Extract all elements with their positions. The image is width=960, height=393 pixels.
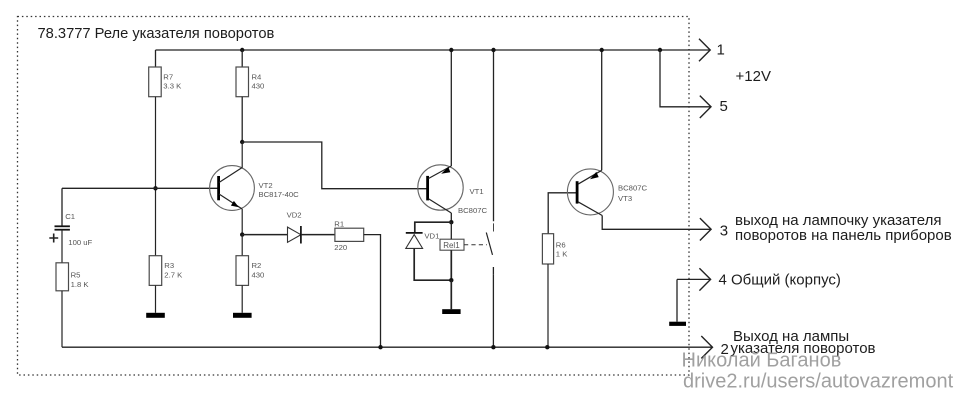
pin 5 arrow [700, 96, 711, 118]
svg-text:VD1: VD1 [424, 231, 439, 240]
node VT2 emitter [240, 232, 244, 236]
wire C1 to R5 [61, 230, 63, 263]
svg-text:+12V: +12V [736, 68, 771, 85]
svg-text:VT3: VT3 [618, 194, 632, 203]
capacitor C1 [49, 212, 92, 247]
node relay bottom [449, 278, 453, 282]
wire R3 bottom [155, 285, 157, 312]
svg-text:Николай Баганов: Николай Баганов [682, 350, 842, 372]
relay coil Rel1 [440, 239, 464, 250]
wire relay bottom [450, 250, 452, 280]
diode VD2 [287, 211, 302, 244]
wire R7 bottom to R3 top [155, 97, 157, 256]
svg-text:2.7 K: 2.7 K [164, 271, 183, 280]
ground R2 [233, 313, 252, 318]
svg-text:3.3 K: 3.3 K [163, 82, 182, 91]
wire VT1 emitter to rail [450, 50, 452, 166]
svg-text:1.8 K: 1.8 K [71, 280, 90, 289]
wire switch from rail [493, 50, 495, 221]
wire relay to ground [450, 280, 452, 309]
node VT2 collector [240, 140, 244, 144]
resistor R3 [149, 256, 183, 286]
wire left vertical to C1 [61, 188, 63, 226]
switch contact lower [492, 267, 494, 274]
svg-text:78.3777 Реле указателя поворот: 78.3777 Реле указателя поворотов [38, 26, 275, 42]
svg-text:4 Общий (корпус): 4 Общий (корпус) [719, 271, 841, 288]
svg-text:R4: R4 [252, 72, 263, 81]
svg-text:VD2: VD2 [287, 211, 302, 220]
resistor R2 [236, 256, 264, 286]
wire R5 bottom to bottom rail [61, 291, 63, 347]
resistor R4 [236, 67, 264, 97]
wire R7 top [155, 50, 157, 67]
svg-text:220: 220 [334, 243, 347, 252]
border frame (decorative) [18, 17, 690, 376]
svg-text:C1: C1 [65, 212, 75, 221]
diode VD1 [406, 231, 440, 248]
wire R1 to bottom rail [364, 235, 381, 348]
svg-text:R6: R6 [556, 240, 566, 249]
svg-text:3: 3 [720, 223, 728, 240]
node switch rail [491, 48, 495, 52]
svg-text:VT2: VT2 [259, 181, 273, 190]
transistor VT2 [210, 166, 300, 211]
wire VT2 emitter down [241, 209, 243, 235]
wire relay top [450, 222, 452, 239]
resistor R7 [149, 67, 182, 97]
node VT3 emitter rail [600, 48, 604, 52]
wire collector to VD1 [415, 222, 452, 232]
wire VT3 emitter to rail [601, 50, 603, 170]
ground pin 4 [669, 322, 686, 326]
svg-text:430: 430 [252, 82, 265, 91]
wire VT2 collector up [241, 142, 243, 168]
watermark [682, 350, 954, 393]
node base of VT2 junction [153, 186, 157, 190]
wire top +12V rail [156, 49, 711, 51]
svg-text:BC817-40C: BC817-40C [259, 190, 300, 199]
resistor R5 [56, 263, 89, 291]
svg-text:100 uF: 100 uF [68, 238, 92, 247]
svg-text:1 K: 1 K [556, 250, 568, 259]
transistor VT3 [567, 169, 647, 216]
svg-text:R3: R3 [164, 261, 174, 270]
wire R4 top [241, 50, 243, 67]
svg-text:Rel1: Rel1 [443, 241, 460, 250]
wire VD1 bottom to relay bottom node [414, 248, 451, 280]
wire switch to bottom rail [492, 274, 494, 347]
node pin5 branch [658, 48, 662, 52]
wire VT2 base horizontal [62, 187, 219, 189]
wire collector node to VT1 base [242, 142, 427, 189]
svg-text:R5: R5 [71, 271, 81, 280]
wire VT3 collector to pin 3 [602, 216, 711, 230]
svg-text:5: 5 [720, 98, 728, 115]
wire R6 bottom to rail [547, 264, 549, 347]
ground relay [442, 309, 460, 314]
switch blade [486, 233, 492, 255]
ground R3 [146, 313, 165, 318]
resistor R1 [334, 219, 363, 252]
wire dashed relay link [464, 244, 487, 246]
svg-text:BC807C: BC807C [618, 184, 648, 193]
svg-text:1: 1 [717, 42, 725, 59]
wire emitter node to VD2 [242, 234, 287, 236]
svg-text:BC807C: BC807C [458, 206, 488, 215]
wire VD2 to R1 [301, 234, 335, 236]
node R1 bottom rail [378, 345, 382, 349]
pin 3 arrow [700, 218, 711, 240]
node R6 bottom rail [545, 345, 549, 349]
wire R2 bottom [241, 285, 243, 312]
wire R4 bottom to collector node [241, 97, 243, 142]
wire pin5 branch [660, 50, 711, 107]
node VT1 collector [449, 220, 453, 224]
node switch bottom rail [491, 345, 495, 349]
svg-text:R2: R2 [252, 261, 262, 270]
resistor R6 [542, 234, 568, 264]
node R4 top [240, 48, 244, 52]
wire bottom rail [62, 346, 713, 348]
svg-text:R1: R1 [334, 219, 344, 228]
wire VT3 base and R6 top [548, 193, 577, 234]
svg-text:R7: R7 [163, 72, 173, 81]
svg-text:drive2.ru/users/autovazremont: drive2.ru/users/autovazremont [683, 371, 954, 393]
node VT1 emitter rail [449, 48, 453, 52]
svg-text:430: 430 [252, 271, 265, 280]
pin 4 arrow [699, 268, 710, 290]
svg-text:поворотов на панель приборов: поворотов на панель приборов [735, 227, 952, 244]
wire VT1 collector down [450, 213, 452, 222]
transistor VT1 [418, 165, 488, 215]
pin 1 arrow [699, 39, 710, 61]
pin 2 arrow [701, 336, 712, 358]
wire pin 4 [677, 278, 711, 280]
wire emitter node to R2 [241, 235, 243, 256]
switch contact upper [493, 223, 495, 231]
svg-text:VT1: VT1 [470, 187, 484, 196]
